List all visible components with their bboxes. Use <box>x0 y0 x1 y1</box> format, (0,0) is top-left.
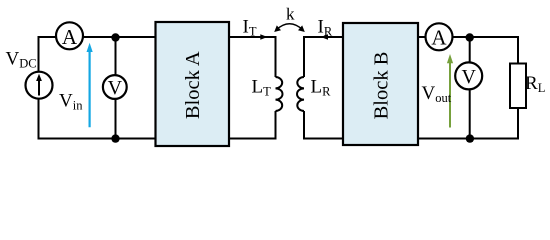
wire LR bottom to Block B <box>304 111 343 139</box>
arrow Vin (cyan) <box>87 43 93 128</box>
junction bottom-right <box>466 134 474 142</box>
wire left bottom rail <box>39 99 156 139</box>
coupling k arc <box>274 24 305 32</box>
ammeter A2 <box>426 23 453 50</box>
wire A2 to right corner <box>452 37 518 64</box>
inductor LT <box>276 77 283 111</box>
wire LT bottom to Block A <box>229 111 276 139</box>
wire LR top to Block B <box>304 37 343 77</box>
junction bottom-left <box>111 134 119 142</box>
wire Block B to ammeter A2 <box>418 36 426 38</box>
voltmeter V2 <box>455 62 482 89</box>
block A <box>156 22 230 146</box>
ammeter A1 <box>56 22 83 49</box>
wire right bottom rail <box>418 108 518 139</box>
inductor LR <box>297 77 304 111</box>
wire top rail ammeter to Block A <box>83 36 156 38</box>
current arrow IT <box>260 34 267 39</box>
svg-text:V: V <box>461 66 476 88</box>
dc source VDC <box>26 72 53 99</box>
junction top-right <box>466 33 474 41</box>
wire voltmeter V1 branch <box>115 37 117 139</box>
resistor RL <box>510 64 526 109</box>
svg-text:V: V <box>108 77 123 99</box>
current arrow IR <box>321 34 328 39</box>
wire V2 branch top <box>469 37 471 63</box>
arrow Vout (green) <box>447 54 453 128</box>
wire V2 branch bottom <box>469 89 471 139</box>
wire Block A to LT top <box>229 37 276 77</box>
svg-text:Block B: Block B <box>370 52 392 120</box>
voltmeter V1 <box>103 75 127 99</box>
svg-text:k: k <box>286 5 295 24</box>
block B <box>343 23 418 145</box>
junction top-left <box>111 33 119 41</box>
wire left top rail <box>39 37 57 72</box>
svg-text:A: A <box>62 25 78 49</box>
svg-text:A: A <box>431 26 447 50</box>
svg-text:Block A: Block A <box>182 51 204 119</box>
